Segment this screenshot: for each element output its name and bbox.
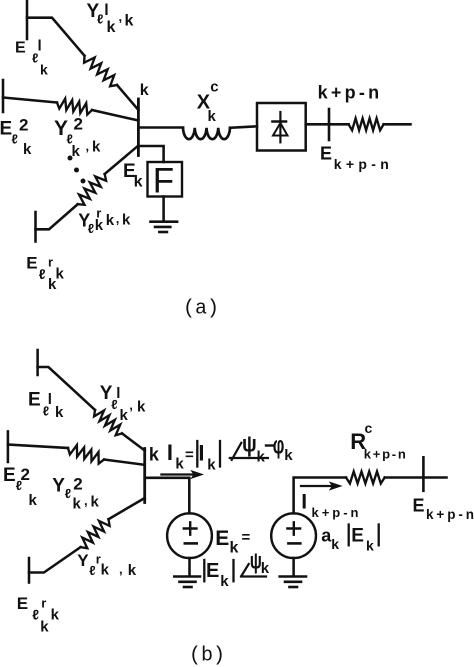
svg-text:k: k [331,536,339,552]
svg-text:k: k [149,444,160,464]
svg-text:2: 2 [19,116,28,135]
svg-text:k: k [55,404,64,421]
svg-text:k: k [95,217,104,234]
svg-text:k: k [137,399,146,416]
svg-text:k: k [73,496,82,513]
svg-text:l: l [48,391,52,408]
svg-text:c: c [365,420,373,436]
svg-text:k: k [101,561,110,578]
svg-text:Y: Y [52,476,65,497]
svg-text:k: k [366,537,374,553]
svg-text:(b): (b) [189,644,225,667]
svg-text:Y: Y [77,551,89,570]
svg-text:ℓ: ℓ [12,131,18,146]
svg-text:k: k [48,276,57,293]
svg-text:k: k [92,139,101,156]
svg-text:=: = [185,446,194,463]
svg-text:k: k [128,562,137,579]
svg-text:,: , [116,211,120,226]
svg-text:k: k [125,12,134,29]
svg-text:k: k [175,455,184,472]
svg-text:l: l [104,2,108,19]
svg-text:k: k [23,141,32,158]
svg-text:ℓ: ℓ [89,563,95,578]
svg-text:c: c [210,79,218,96]
svg-text:k: k [208,108,217,125]
svg-text:(a): (a) [183,297,219,320]
svg-text:E: E [3,465,16,486]
svg-text:E: E [215,527,229,550]
svg-text:k: k [230,540,239,557]
svg-text:r: r [41,596,46,611]
svg-text:ℓ: ℓ [97,12,103,27]
svg-text:I: I [198,441,204,466]
svg-text:φ: φ [273,432,285,459]
svg-text:k+p-n: k+p-n [312,505,359,520]
svg-text:F: F [153,161,174,200]
svg-text:k: k [56,266,65,283]
svg-text:k: k [220,573,229,590]
svg-text:k: k [106,212,115,229]
svg-text:k: k [257,448,266,465]
svg-text:2: 2 [74,115,83,134]
svg-text:k: k [72,143,81,160]
svg-text:E: E [26,253,37,272]
svg-text:E: E [206,560,219,582]
svg-text:k: k [284,447,293,464]
svg-text:k: k [134,174,143,191]
svg-text:k: k [122,212,131,229]
svg-text:E: E [320,144,332,164]
svg-text:E: E [15,39,26,56]
svg-text:k: k [120,407,129,424]
svg-text:k: k [140,82,149,99]
svg-text:I: I [167,440,173,465]
svg-text:E: E [351,525,364,546]
svg-text:2: 2 [73,475,82,494]
svg-text:k: k [51,607,60,624]
svg-text:k: k [29,492,38,509]
svg-text:k: k [40,61,48,77]
svg-text:k: k [107,19,116,36]
svg-text:ℓ: ℓ [32,607,39,623]
svg-text:I: I [301,491,307,514]
svg-text:k+p-n: k+p-n [426,507,474,522]
svg-text:E: E [413,496,425,516]
svg-text:k+p-n: k+p-n [334,156,389,172]
svg-text:ℓ: ℓ [39,266,46,282]
svg-text:ψ: ψ [242,431,257,457]
svg-text:l: l [116,385,120,402]
svg-text:ℓ: ℓ [65,486,71,501]
svg-text:,: , [129,398,133,413]
svg-text:E: E [28,390,41,411]
svg-text:ℓ: ℓ [88,221,94,236]
svg-text:k: k [207,456,216,473]
svg-text:,: , [84,493,88,508]
svg-text:k: k [40,618,49,635]
svg-text:k+p-n: k+p-n [364,447,406,462]
svg-text:,: , [119,562,123,577]
svg-text:k: k [91,494,100,511]
svg-text:E: E [0,119,12,140]
svg-text:E: E [17,594,28,613]
svg-text:r: r [48,255,53,270]
svg-text:k: k [261,560,270,577]
svg-text:,: , [86,139,90,154]
svg-text:2: 2 [21,465,30,484]
svg-text:,: , [119,9,123,24]
svg-text:l: l [38,38,42,55]
svg-text:=: = [242,529,251,546]
svg-text:k+p-n: k+p-n [318,82,380,102]
